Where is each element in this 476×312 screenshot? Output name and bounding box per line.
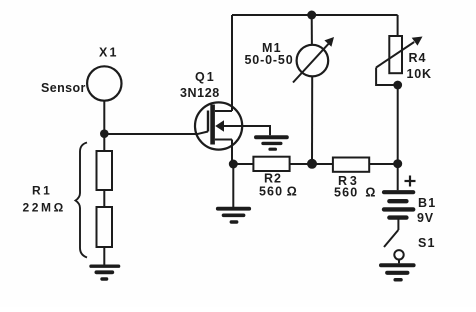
svg-text:R2: R2 [264,172,282,186]
brace R1 [76,143,88,258]
wire M1 bottom lead [311,76,313,163]
wire drain riser [231,15,233,111]
wire top rail [232,14,398,16]
wire M1 top lead [311,15,313,45]
switch S1 [384,230,404,263]
svg-text:50-0-50: 50-0-50 [245,53,294,67]
svg-text:560 Ω: 560 Ω [259,185,298,199]
junction dot R4 wiper [393,81,402,90]
rheostat R4 [376,36,422,85]
svg-text:S1: S1 [418,236,436,250]
transistor Q1 [195,102,242,149]
sensor X1 [87,66,121,100]
wire substrate [224,126,270,135]
wire R4 to battery node [397,85,399,164]
resistor R2 [253,157,289,171]
wire R1 middle [103,190,105,207]
wire R2 to center node [290,163,312,165]
wire R4 top lead [397,15,399,36]
wire sensor to R1 [103,101,105,151]
ground battery [381,265,414,280]
wire source fall [231,140,233,165]
svg-text:Sensor: Sensor [41,81,86,95]
svg-text:3N128: 3N128 [180,86,220,100]
junction dot battery node [393,159,402,168]
plus sign [405,176,416,187]
meter M1 [293,37,334,83]
ground Q1 source [218,209,249,222]
svg-text:R4: R4 [409,51,427,65]
svg-text:Q1: Q1 [195,70,216,84]
wire gate [104,133,196,135]
junction dot source node [229,160,238,169]
wire battery to switch [397,219,399,230]
junction dot gate node [100,129,109,138]
wire Q1 source to ground [232,164,234,207]
wire center node to R3 [312,163,333,165]
resistor R1 upper half [97,151,113,190]
junction dot top rail / M1 [307,11,316,20]
wire source node to R2 [234,163,254,165]
svg-text:10K: 10K [407,67,432,81]
svg-text:B1: B1 [418,196,436,210]
resistor R3 [333,158,369,172]
svg-text:22MΩ: 22MΩ [23,201,66,215]
junction dot center node [307,159,317,169]
svg-text:9V: 9V [417,211,434,225]
wire R1 to ground [103,247,105,265]
svg-text:R1: R1 [32,184,52,198]
wire R3 to battery node [369,163,398,165]
wire battery top lead [397,164,399,191]
ground substrate [256,137,287,149]
battery B1 [384,192,413,217]
svg-text:X1: X1 [99,46,119,60]
svg-text:560 Ω: 560 Ω [334,186,377,200]
resistor R1 lower half [97,207,113,247]
ground R1 [91,266,119,279]
